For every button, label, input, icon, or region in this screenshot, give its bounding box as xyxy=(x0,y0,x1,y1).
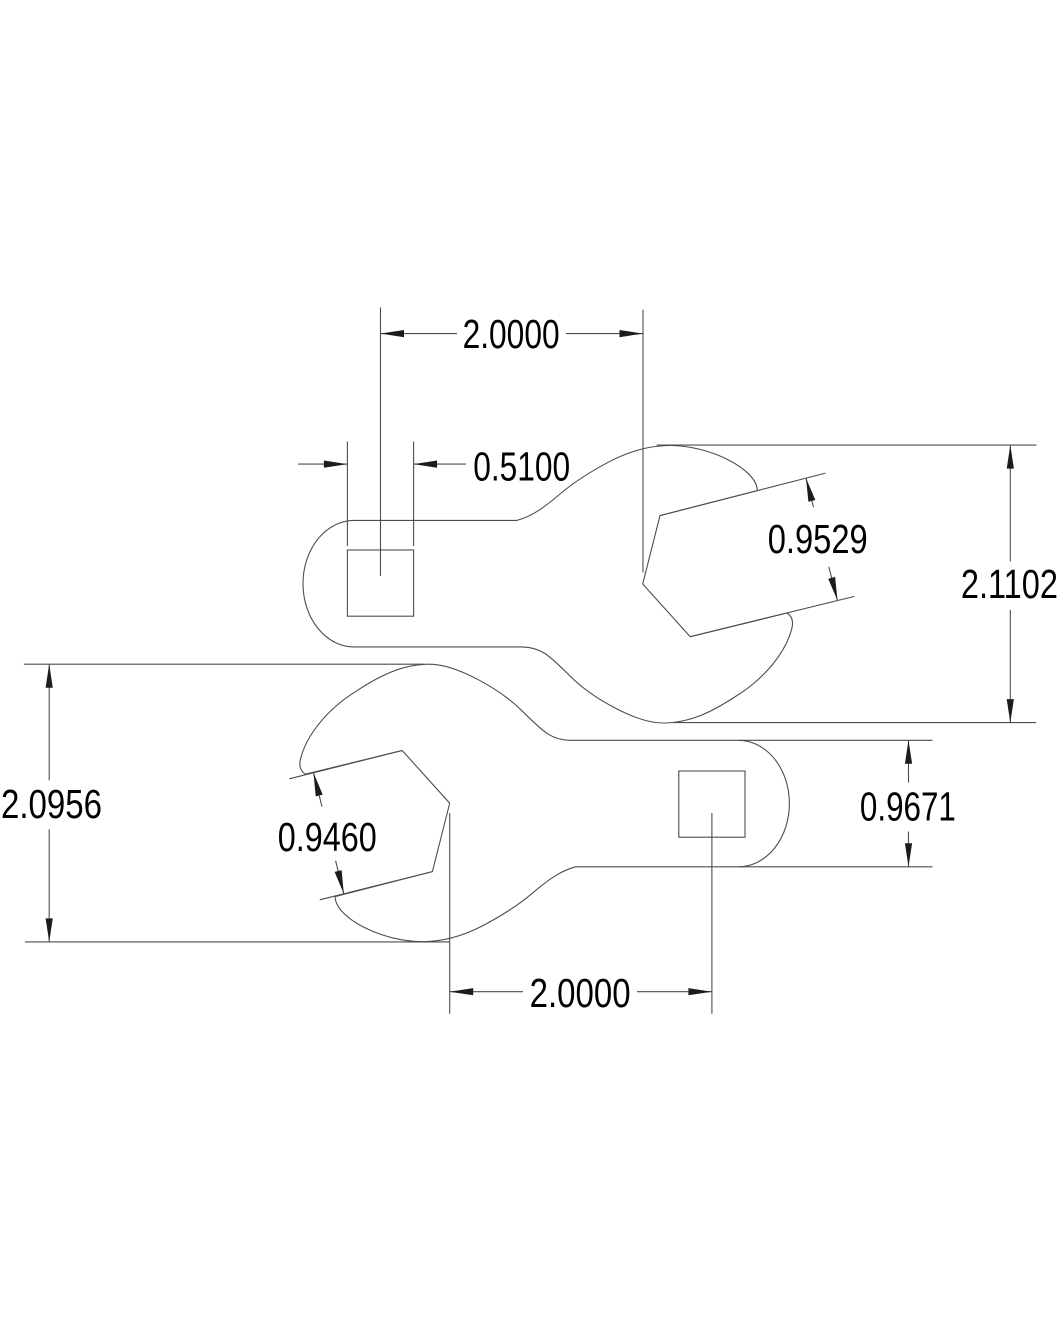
dimension 2.0000 (top) extension line at jaw root xyxy=(642,310,644,573)
svg-text:0.5100: 0.5100 xyxy=(473,444,570,490)
wrench 2 lower jaw face line with extension xyxy=(320,872,433,900)
dimension 0.9671 bottom arrow xyxy=(905,843,912,867)
dimension 2.0000 (top) extension line at square center xyxy=(380,308,382,577)
dimension 0.5100 extension line right xyxy=(413,442,415,547)
dimension 2.0000 (bottom) extension line at jaw root xyxy=(449,813,451,1014)
dimension 2.0956 bottom arrow xyxy=(46,918,53,942)
dimension 0.5100 extension line left xyxy=(346,442,348,547)
svg-text:2.1102: 2.1102 xyxy=(961,561,1058,607)
dimension 0.9460 dimension line lower segment xyxy=(336,861,344,894)
wrench 1 square drive hole xyxy=(347,550,413,616)
dimension 0.5100 right arrow xyxy=(414,461,438,468)
dimension 2.1102 top arrow xyxy=(1007,445,1014,469)
svg-text:2.0000: 2.0000 xyxy=(463,311,560,357)
dimension 2.1102 bottom extension line xyxy=(674,722,1036,724)
svg-text:0.9460: 0.9460 xyxy=(278,814,377,860)
dimension 2.0000 (bottom) extension line at square center xyxy=(711,813,713,1014)
wrench 2 (lower crowfoot wrench) outline, 180deg rotated copy xyxy=(300,664,790,942)
dimension 0.5100 right leader xyxy=(414,463,466,465)
dimension 2.0956 bottom extension line xyxy=(25,941,450,943)
dimension 2.0956 dimension line xyxy=(48,664,50,780)
dimension 0.9671 top extension line xyxy=(738,739,932,741)
dimension 2.0956 top arrow xyxy=(46,664,53,688)
wrench 2 square drive hole xyxy=(679,771,745,837)
wrench 1 lower jaw face line with extension xyxy=(690,596,854,636)
wrench 1 upper jaw face line with extension xyxy=(660,473,826,515)
dimension 0.9529 dimension line upper segment xyxy=(806,478,814,507)
dimension 2.0000 (bottom) right arrow xyxy=(688,988,712,995)
dimension 2.0000 (top) left arrow xyxy=(381,330,405,337)
svg-text:0.9529: 0.9529 xyxy=(768,516,868,562)
wrench 2 upper jaw face line with extension xyxy=(289,751,402,779)
dimension 2.0000 (bottom) dimension line xyxy=(450,991,523,993)
dimension 0.9529 upper arrow xyxy=(806,478,815,502)
dimension 0.5100 left leader xyxy=(298,463,347,465)
dimension 2.1102 dimension line xyxy=(1009,445,1011,561)
svg-text:0.9671: 0.9671 xyxy=(860,784,956,830)
wrench 1 (upper crowfoot wrench) outline xyxy=(303,446,793,724)
dimension 0.5100 left arrow xyxy=(324,461,348,468)
dimension 0.9671 dimension line xyxy=(908,740,910,782)
dimension 2.0000 (top) right arrow xyxy=(620,330,644,337)
dimension 0.9671 top arrow xyxy=(905,740,912,764)
dimension 2.0000 (bottom) left arrow xyxy=(450,988,474,995)
dimension 2.0956 top extension line xyxy=(24,663,424,665)
dimension 0.9529 lower arrow xyxy=(828,577,837,601)
dimension 2.0000 (top) dimension line xyxy=(381,333,458,335)
svg-text:2.0000: 2.0000 xyxy=(530,970,631,1016)
dimension 0.9460 dimension line upper segment xyxy=(314,773,323,807)
svg-text:2.0956: 2.0956 xyxy=(1,781,102,827)
dimension 0.9671 bottom extension line xyxy=(738,866,932,868)
dimension 0.9460 lower arrow xyxy=(335,870,344,894)
dimension 2.1102 top extension line xyxy=(657,444,1037,446)
dimension 0.9529 dimension line lower segment xyxy=(829,567,838,601)
dimension 0.9460 upper arrow xyxy=(314,773,323,797)
dimension 2.1102 bottom arrow xyxy=(1007,699,1014,723)
